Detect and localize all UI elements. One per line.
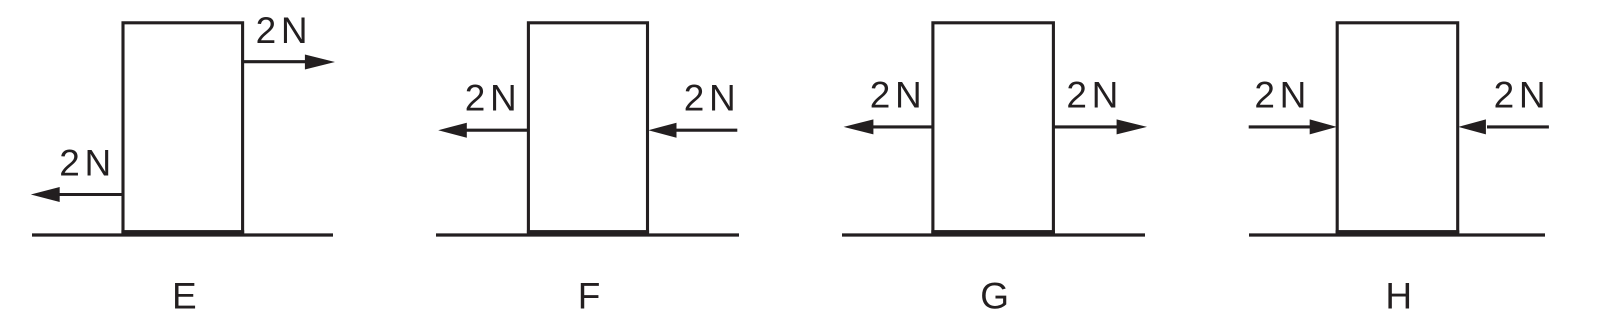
svg-text:E: E	[172, 275, 197, 316]
block H bottom edge merged with ground	[1336, 230, 1460, 236]
svg-text:2 N: 2 N	[684, 78, 733, 119]
svg-text:H: H	[1385, 275, 1412, 316]
svg-text:2 N: 2 N	[1066, 75, 1115, 116]
force arrow G left (2 N, pointing left away from block)	[844, 119, 934, 134]
force arrow E bottom-left (2 N, pointing left)	[31, 187, 124, 202]
svg-text:2 N: 2 N	[1494, 75, 1543, 116]
block E	[123, 23, 243, 232]
ground line under H	[1249, 233, 1545, 236]
force arrow E top-right (2 N, pointing right)	[242, 55, 336, 70]
ground line under G	[842, 233, 1145, 236]
force arrow F left (2 N, pointing left away from block)	[438, 123, 529, 138]
block F	[528, 23, 647, 232]
force arrow H right (2 N, pointing left into block)	[1458, 119, 1549, 134]
svg-text:G: G	[980, 275, 1009, 316]
ground line under F	[436, 233, 739, 236]
block G	[933, 23, 1054, 232]
force arrow H left (2 N, pointing right into block)	[1249, 119, 1337, 134]
svg-text:2 N: 2 N	[465, 78, 514, 119]
block H	[1337, 23, 1458, 232]
svg-text:F: F	[578, 275, 601, 316]
svg-text:2 N: 2 N	[59, 143, 108, 184]
block E bottom edge merged with ground	[121, 230, 244, 236]
block G bottom edge merged with ground	[931, 230, 1055, 236]
force arrow G right (2 N, pointing right away from block)	[1053, 119, 1147, 134]
svg-text:2 N: 2 N	[1254, 75, 1303, 116]
svg-text:2 N: 2 N	[256, 10, 305, 51]
force arrow F right (2 N, pointing left into block)	[648, 123, 737, 138]
block F bottom edge merged with ground	[527, 230, 649, 236]
svg-text:2 N: 2 N	[870, 75, 919, 116]
ground line under E	[32, 233, 333, 236]
